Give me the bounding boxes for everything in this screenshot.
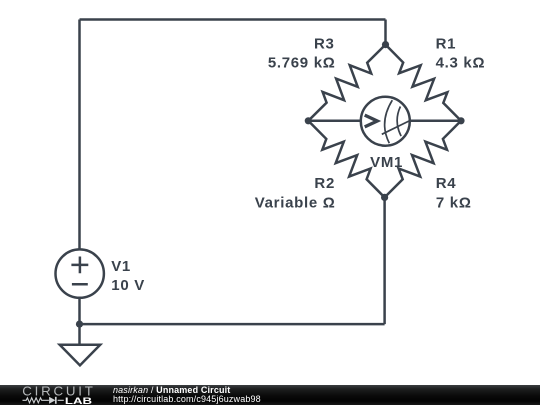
node junction bbox=[76, 321, 83, 328]
svg-text:R4: R4 bbox=[436, 175, 457, 192]
svg-text:4.3 kΩ: 4.3 kΩ bbox=[436, 55, 486, 72]
CircuitLab logo bbox=[0, 385, 110, 405]
svg-text:R2: R2 bbox=[314, 175, 335, 192]
wire V1 to junction bbox=[78, 298, 81, 325]
wire left node to voltmeter bbox=[308, 120, 360, 123]
svg-text:LAB: LAB bbox=[65, 395, 92, 405]
wire top horizontal bbox=[80, 18, 386, 21]
node top bbox=[382, 41, 389, 48]
wire left vertical bbox=[78, 20, 81, 251]
wire voltmeter to right node bbox=[410, 120, 461, 123]
footer bar bbox=[0, 385, 540, 405]
resistor R4 bbox=[385, 121, 461, 198]
svg-text:10 V: 10 V bbox=[111, 277, 145, 294]
resistor R3 bbox=[308, 45, 385, 121]
wire bottom node down bbox=[383, 197, 386, 324]
resistor R2 bbox=[308, 121, 384, 198]
footer credit text bbox=[113, 386, 261, 404]
ground bbox=[60, 345, 100, 366]
node left bbox=[305, 117, 312, 124]
voltmeter VM1 bbox=[361, 97, 410, 146]
wire junction to ground bbox=[78, 324, 81, 345]
wire top to bridge bbox=[384, 20, 387, 45]
node bottom bbox=[381, 194, 388, 201]
svg-text:R3: R3 bbox=[314, 35, 335, 52]
voltage source V1 bbox=[55, 249, 103, 297]
svg-text:V1: V1 bbox=[111, 258, 131, 275]
svg-text:5.769 kΩ: 5.769 kΩ bbox=[268, 55, 336, 72]
svg-text:7 kΩ: 7 kΩ bbox=[436, 195, 472, 212]
svg-text:R1: R1 bbox=[436, 35, 457, 52]
resistor R1 bbox=[386, 45, 462, 121]
wire bottom horizontal bbox=[80, 323, 385, 326]
svg-text:Variable Ω: Variable Ω bbox=[255, 195, 336, 212]
node right bbox=[457, 117, 464, 124]
svg-text:VM1: VM1 bbox=[370, 154, 403, 171]
